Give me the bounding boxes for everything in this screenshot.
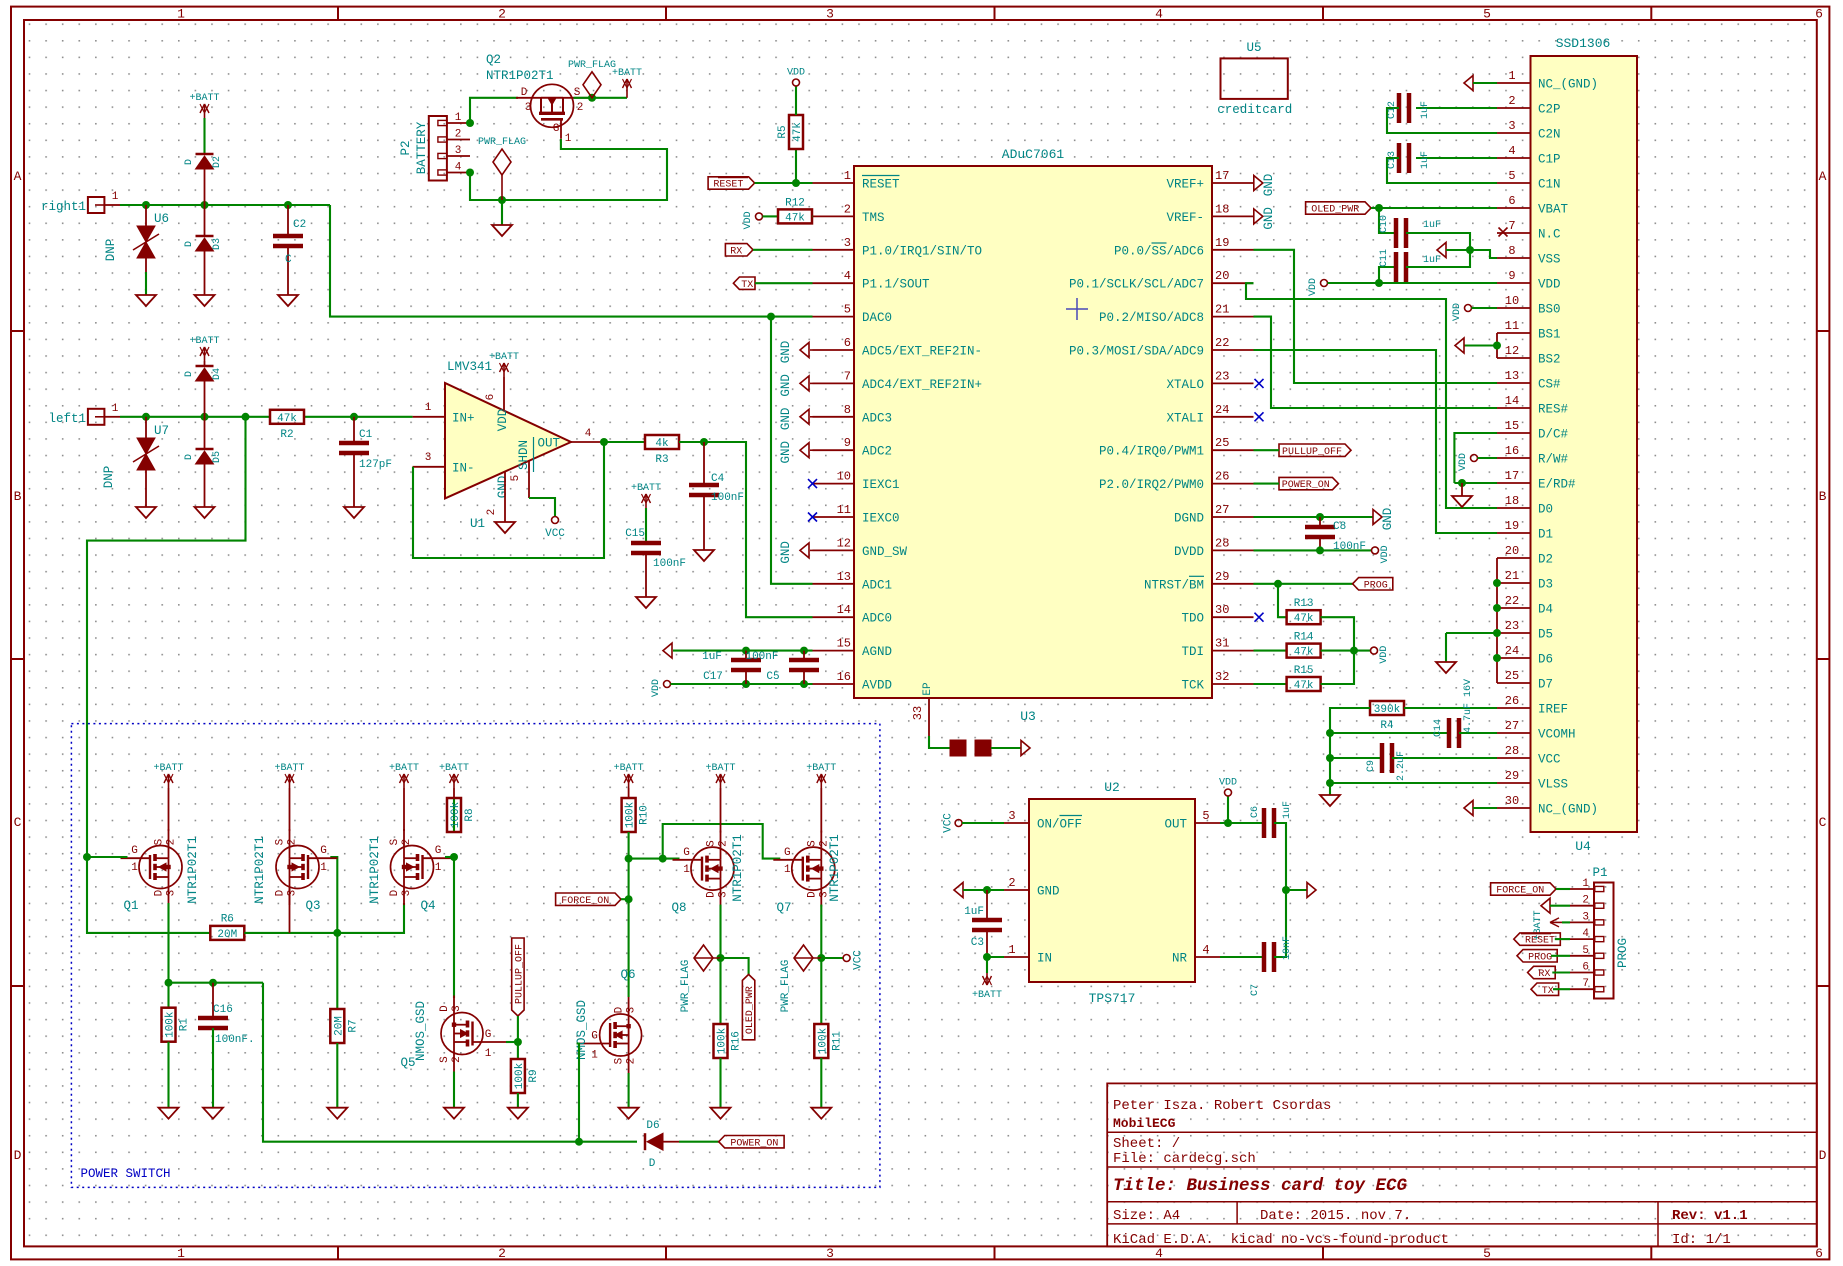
hier label GND at U3 pin 9 xyxy=(810,449,813,451)
svg-text:2: 2 xyxy=(451,1056,463,1063)
transistor Q5 NMOS_GSD xyxy=(441,1013,483,1055)
capacitor C11 xyxy=(1379,267,1397,283)
svg-text:LMV341: LMV341 xyxy=(447,360,492,374)
svg-text:VCC: VCC xyxy=(545,528,565,540)
svg-text:R12: R12 xyxy=(785,197,805,209)
svg-text:21: 21 xyxy=(1215,303,1229,317)
wire Q8 drain to OLED_PWR xyxy=(721,958,749,974)
svg-text:29: 29 xyxy=(1505,769,1519,783)
hier label GND at AGND xyxy=(663,643,672,658)
svg-text:1: 1 xyxy=(1508,69,1515,83)
transistor Q6 NMOS_GSD xyxy=(600,1014,642,1056)
connector J right1 xyxy=(88,197,105,213)
svg-text:2: 2 xyxy=(498,7,506,22)
svg-text:26: 26 xyxy=(1505,694,1519,708)
svg-text:3: 3 xyxy=(287,890,299,897)
ic U3 pin 8 ADC3 xyxy=(813,416,855,418)
svg-text:26: 26 xyxy=(1215,470,1229,484)
wire GND to pin2 xyxy=(963,889,1004,891)
svg-text:7: 7 xyxy=(1582,978,1589,990)
diode D2 xyxy=(196,153,214,156)
capacitor C8 xyxy=(1319,517,1321,525)
svg-text:NTR1P02T1: NTR1P02T1 xyxy=(731,834,745,902)
ic U4 pin 21 D3 xyxy=(1497,582,1531,584)
hier label GND at VSS xyxy=(1437,243,1446,258)
resistor R6 xyxy=(210,926,244,940)
svg-text:20M: 20M xyxy=(333,1016,345,1036)
svg-text:14: 14 xyxy=(837,603,851,617)
wire DGND net xyxy=(1254,516,1374,518)
node left1-D5 xyxy=(201,413,209,421)
svg-text:NTRST/BM: NTRST/BM xyxy=(1144,578,1204,592)
node rail-R14 xyxy=(1350,647,1358,655)
wire Q7 drain down xyxy=(820,905,822,958)
node R6 R7 Q3 gate xyxy=(333,929,341,937)
power flag PWR_FLAG near battery xyxy=(493,149,511,175)
svg-text:VCC: VCC xyxy=(853,950,865,970)
wire Q4 gate to R8 xyxy=(445,856,454,858)
wire P0.0 to CS# xyxy=(1254,250,1498,383)
op-amp U1 pin3 stub xyxy=(413,466,445,468)
svg-text:PULLUP_OFF: PULLUP_OFF xyxy=(1282,447,1342,458)
ic U4 pin 26 IREF xyxy=(1497,707,1531,709)
ground below C15 xyxy=(636,597,656,608)
global label PULLUP_OFF at U3 xyxy=(1279,444,1351,456)
svg-text:47k: 47k xyxy=(1294,680,1314,692)
wire pads to gnd arrow xyxy=(991,747,1021,749)
svg-text:C2: C2 xyxy=(293,219,306,231)
power VDD at DVDD xyxy=(1372,547,1379,554)
svg-text:FORCE_ON: FORCE_ON xyxy=(1496,886,1544,897)
svg-text:D5: D5 xyxy=(212,451,223,463)
svg-text:NTR1P02T1: NTR1P02T1 xyxy=(253,836,267,904)
wire R14 to VDD xyxy=(1321,650,1371,652)
svg-text:+BATT: +BATT xyxy=(189,336,219,347)
svg-text:D3: D3 xyxy=(1538,578,1553,592)
svg-text:5: 5 xyxy=(1483,1246,1491,1261)
svg-text:D0: D0 xyxy=(1538,503,1553,517)
svg-text:POWER SWITCH: POWER SWITCH xyxy=(81,1167,171,1181)
connector P1 pin 7 xyxy=(1570,988,1594,990)
svg-text:D: D xyxy=(649,1158,656,1170)
resistor R3 xyxy=(645,435,679,449)
svg-text:D: D xyxy=(154,889,166,896)
svg-text:TX: TX xyxy=(1542,986,1554,997)
ground below C16 xyxy=(203,1108,223,1119)
svg-text:GND: GND xyxy=(779,341,793,364)
svg-text:CS#: CS# xyxy=(1538,378,1561,392)
ic U4 pin 12 BS2 xyxy=(1497,357,1531,359)
svg-text:22: 22 xyxy=(1505,594,1519,608)
svg-text:1: 1 xyxy=(591,1050,598,1062)
svg-text:S: S xyxy=(439,1056,451,1063)
ic U4 pin 27 VCOMH xyxy=(1497,732,1531,734)
svg-text:Q2: Q2 xyxy=(486,53,501,67)
svg-text:2: 2 xyxy=(1508,94,1515,108)
svg-text:BS2: BS2 xyxy=(1538,353,1561,367)
hier label GND at EP xyxy=(1021,741,1030,756)
svg-text:IEXC0: IEXC0 xyxy=(862,512,900,526)
svg-text:G: G xyxy=(553,123,560,135)
wire op-amp feedback xyxy=(413,442,604,558)
svg-text:GND: GND xyxy=(779,541,793,564)
resistor R8 xyxy=(453,798,455,831)
transistor Q1 NTR1P02T1 xyxy=(139,846,182,889)
ic U3 pin 16 AVDD xyxy=(813,683,855,685)
ic U2 pin2 GND xyxy=(1004,889,1029,891)
power +BATT at P1 pin3 xyxy=(1562,921,1570,923)
svg-text:D: D xyxy=(184,454,195,460)
capacitor C6 xyxy=(1262,808,1267,838)
svg-text:47k: 47k xyxy=(1294,647,1314,659)
svg-text:C2N: C2N xyxy=(1538,128,1561,142)
svg-text:PWR_FLAG: PWR_FLAG xyxy=(680,960,692,1013)
power flag PWR_FLAG at Q2 xyxy=(583,72,601,98)
svg-text:R5: R5 xyxy=(777,125,789,138)
wire AVDD net xyxy=(671,683,813,685)
ic U4 pin 4 C1P xyxy=(1497,157,1531,159)
ic U3 pin 31 TDI xyxy=(1212,650,1254,652)
ic U4 pin 17 E/RD# xyxy=(1497,482,1531,484)
svg-text:2: 2 xyxy=(844,202,851,216)
wire VLSS xyxy=(1330,782,1497,784)
ic U4 pin 29 VLSS xyxy=(1497,782,1531,784)
node OLED_PWR xyxy=(1375,204,1383,212)
power +BATT above D4 xyxy=(204,361,206,366)
capacitor C9 xyxy=(1330,757,1380,759)
ground below R11 xyxy=(811,1108,831,1119)
svg-text:1: 1 xyxy=(784,864,791,876)
capacitor C14 xyxy=(1330,732,1447,734)
svg-text:28: 28 xyxy=(1215,536,1229,550)
tvs U6 DNP xyxy=(145,205,147,226)
svg-text:KiCad E.D.A. kicad no-vcs-fou: KiCad E.D.A. kicad no-vcs-found-product xyxy=(1113,1232,1449,1248)
svg-text:D: D xyxy=(14,1148,22,1163)
wire P0.1 to D0 xyxy=(1246,283,1497,508)
wire Q8 drain down xyxy=(719,905,721,958)
svg-text:Q6: Q6 xyxy=(620,968,635,982)
svg-text:C: C xyxy=(14,815,22,830)
svg-text:S: S xyxy=(154,838,166,845)
svg-text:POWER_ON: POWER_ON xyxy=(1282,480,1330,491)
power VDD above OUT xyxy=(1227,796,1229,823)
svg-text:Q4: Q4 xyxy=(420,899,435,913)
svg-text:3: 3 xyxy=(455,145,462,157)
resistor R15 xyxy=(1287,677,1321,691)
node right1-U6 xyxy=(142,201,150,209)
svg-text:10: 10 xyxy=(837,470,851,484)
overline RESET pin1 xyxy=(862,175,900,177)
svg-text:4: 4 xyxy=(455,162,462,174)
svg-text:3: 3 xyxy=(826,1246,834,1261)
ic U3 pin 22 P0.3/MOSI/SDA/ADC9 xyxy=(1212,349,1254,351)
svg-text:GND: GND xyxy=(1262,174,1276,197)
svg-text:1: 1 xyxy=(455,112,462,124)
wire R8 to Q5 drain xyxy=(453,857,455,998)
node Q7 drain xyxy=(817,954,825,962)
connector P1 pin 1 xyxy=(1570,888,1594,890)
global label FORCE_ON at switch xyxy=(556,893,621,905)
resistor R9 xyxy=(517,1042,519,1059)
svg-text:C6: C6 xyxy=(1250,806,1261,818)
node R10 bottom xyxy=(625,855,633,863)
ic U4 pin 28 VCC xyxy=(1497,757,1531,759)
ic U3 pin 19 P0.0/SS/ADC6 xyxy=(1212,249,1254,251)
diode D5 xyxy=(196,448,214,451)
svg-text:VREF+: VREF+ xyxy=(1166,178,1204,192)
ic U3 pin 20 P0.1/SCLK/SCL/ADC7 xyxy=(1212,282,1254,284)
node Q4 gate R8 xyxy=(450,853,458,861)
ic U4 pin 20 D2 xyxy=(1497,557,1531,559)
title block xyxy=(1107,1083,1817,1246)
ic U2 TPS717 body xyxy=(1029,799,1195,982)
ground below D3 xyxy=(195,295,215,306)
svg-text:19: 19 xyxy=(1505,519,1519,533)
ic U4 pin 11 BS1 xyxy=(1497,332,1531,334)
ground below Q6 xyxy=(619,1108,639,1119)
svg-text:G: G xyxy=(131,845,138,857)
svg-text:2: 2 xyxy=(498,1246,506,1261)
svg-text:2.2uF: 2.2uF xyxy=(1396,751,1407,781)
ic U4 pin 14 RES# xyxy=(1497,407,1531,409)
ground at D/C# xyxy=(1461,483,1463,496)
resistor R11 xyxy=(820,958,822,1024)
svg-text:100k: 100k xyxy=(450,801,462,828)
svg-text:+BATT: +BATT xyxy=(972,990,1002,1001)
wire PULLUP_OFF to node xyxy=(517,1016,519,1042)
wire P0.3 to D1 xyxy=(1254,350,1498,533)
svg-text:TDI: TDI xyxy=(1181,645,1204,659)
svg-text:C15: C15 xyxy=(625,528,645,540)
power VDD at R12 xyxy=(756,213,763,220)
ic U3 pin 7 ADC4/EXT_REF2IN+ xyxy=(813,382,855,384)
svg-text:RESET: RESET xyxy=(1525,936,1555,947)
svg-text:C: C xyxy=(285,254,292,266)
power +BATT above Q7 xyxy=(820,788,822,833)
svg-text:18: 18 xyxy=(1505,494,1519,508)
svg-text:OUT: OUT xyxy=(537,437,560,451)
node rail-VLSS xyxy=(1326,779,1334,787)
ic U4 pin 18 D0 xyxy=(1497,507,1531,509)
svg-text:+BATT: +BATT xyxy=(153,763,183,774)
wire VCC to ON/OFF xyxy=(962,822,1004,824)
svg-text:VCOMH: VCOMH xyxy=(1538,728,1576,742)
svg-text:VDD: VDD xyxy=(1452,303,1463,321)
hier label GND right of C6 xyxy=(1307,883,1316,898)
svg-text:8: 8 xyxy=(1508,244,1515,258)
svg-text:1: 1 xyxy=(320,862,327,874)
node R3-C4 xyxy=(700,438,708,446)
svg-text:D4: D4 xyxy=(1538,603,1553,617)
svg-text:1: 1 xyxy=(485,1048,492,1060)
svg-text:P2.0/IRQ2/PWM0: P2.0/IRQ2/PWM0 xyxy=(1099,478,1204,492)
svg-text:G: G xyxy=(683,847,690,859)
hier label GND at U4 pin30 xyxy=(1464,801,1473,816)
svg-text:20: 20 xyxy=(1215,269,1229,283)
wire RX to pin3 xyxy=(753,249,813,251)
hier label GND at VREF- xyxy=(1254,209,1263,224)
global label OLED_PWR at U4 xyxy=(1306,202,1371,214)
global label TX at P1 xyxy=(1531,983,1559,995)
ic U3 pin 15 AGND xyxy=(813,650,855,652)
svg-text:D: D xyxy=(1819,1148,1827,1163)
svg-text:C11: C11 xyxy=(1379,249,1390,267)
svg-text:15: 15 xyxy=(837,637,851,651)
node BS1-BS2 xyxy=(1493,342,1501,350)
svg-text:1: 1 xyxy=(435,862,442,874)
svg-text:13: 13 xyxy=(1505,369,1519,383)
svg-text:PWR_FLAG: PWR_FLAG xyxy=(780,960,792,1013)
svg-text:6: 6 xyxy=(1815,1246,1823,1261)
svg-text:G: G xyxy=(320,845,327,857)
node DGND-C8 xyxy=(1316,513,1324,521)
ic U3 pin 32 TCK xyxy=(1212,683,1254,685)
node Q2 source xyxy=(588,94,596,102)
svg-text:U5: U5 xyxy=(1246,41,1261,55)
capacitor C10 xyxy=(1379,208,1397,233)
ic U4 pin 23 D5 xyxy=(1497,632,1531,634)
ic U3 pin 3 P1.0/IRQ1/SIN/TO xyxy=(813,249,855,251)
node OUT xyxy=(1224,819,1232,827)
op-amp U1 pin4 stub xyxy=(571,441,604,443)
svg-text:IN: IN xyxy=(1037,952,1052,966)
svg-text:VDD: VDD xyxy=(651,679,662,697)
svg-text:100nF: 100nF xyxy=(745,651,778,663)
svg-text:6: 6 xyxy=(844,336,851,350)
wire pin25 to PULLUP_OFF xyxy=(1254,449,1280,451)
wire OUT net xyxy=(1220,822,1262,824)
svg-text:D7: D7 xyxy=(1538,678,1553,692)
svg-text:D2: D2 xyxy=(212,156,223,168)
power +BATT at op-amp xyxy=(503,363,505,377)
net-tie pad A xyxy=(950,740,966,756)
svg-text:NC_(GND): NC_(GND) xyxy=(1538,78,1598,92)
svg-text:8: 8 xyxy=(844,403,851,417)
svg-text:BS0: BS0 xyxy=(1538,303,1561,317)
ic U3 pin 24 XTALI xyxy=(1212,416,1254,418)
svg-text:TDO: TDO xyxy=(1181,612,1204,626)
svg-text:VREF-: VREF- xyxy=(1166,211,1204,225)
node Q1 gate xyxy=(83,853,91,861)
wire Q1 drain down xyxy=(167,903,169,983)
connector P1 pin 3 xyxy=(1570,921,1594,923)
capacitor C4 xyxy=(703,442,705,483)
ic U4 pin 10 BS0 xyxy=(1497,307,1531,309)
svg-text:+BATT: +BATT xyxy=(806,763,836,774)
node NTRST-R13 xyxy=(1274,580,1282,588)
power +BATT above R8 xyxy=(453,788,455,798)
svg-text:11: 11 xyxy=(1505,319,1519,333)
graphic box POWER SWITCH xyxy=(71,724,880,1188)
ic U4 pin 13 CS# xyxy=(1497,382,1531,384)
svg-text:4: 4 xyxy=(1155,7,1163,22)
svg-text:+BATT: +BATT xyxy=(614,763,644,774)
svg-text:30: 30 xyxy=(1215,603,1229,617)
svg-text:Size: A4: Size: A4 xyxy=(1113,1208,1180,1224)
resistor R1 xyxy=(167,983,169,1008)
svg-text:9: 9 xyxy=(844,436,851,450)
ground below R7 xyxy=(327,1108,347,1119)
node left1-drop xyxy=(242,413,250,421)
svg-text:2: 2 xyxy=(287,839,299,846)
svg-text:R8: R8 xyxy=(464,808,476,821)
svg-text:47k: 47k xyxy=(1294,613,1314,625)
diode D4 xyxy=(196,365,214,368)
svg-text:+BATT: +BATT xyxy=(489,352,519,363)
svg-text:390k: 390k xyxy=(1374,704,1401,716)
svg-text:R10: R10 xyxy=(639,805,651,825)
svg-text:creditcard: creditcard xyxy=(1217,103,1292,117)
svg-text:DVDD: DVDD xyxy=(1174,545,1204,559)
ground below op-amp xyxy=(495,522,515,533)
svg-text:NMOS_GSD: NMOS_GSD xyxy=(414,1001,428,1061)
svg-text:A: A xyxy=(1819,169,1827,184)
node D bus pin 23 xyxy=(1493,629,1501,637)
svg-text:GND: GND xyxy=(779,441,793,464)
ground below C4 xyxy=(694,550,714,561)
svg-text:1uF: 1uF xyxy=(1423,220,1441,231)
no-connect U3 pin11 xyxy=(808,513,817,522)
ic U4 pin 19 D1 xyxy=(1497,532,1531,534)
node VDD-C11 xyxy=(1375,279,1383,287)
svg-text:3: 3 xyxy=(1508,119,1515,133)
svg-text:2: 2 xyxy=(718,840,730,847)
resistor R14 xyxy=(1287,644,1321,658)
svg-text:16: 16 xyxy=(837,670,851,684)
svg-text:U7: U7 xyxy=(154,424,169,438)
svg-text:OLED_PWR: OLED_PWR xyxy=(745,986,756,1034)
svg-text:DNP: DNP xyxy=(102,466,116,489)
svg-text:TX: TX xyxy=(741,280,753,291)
svg-text:U3: U3 xyxy=(1020,709,1036,724)
node DVDD-C8 xyxy=(1316,546,1324,554)
svg-text:+BATT: +BATT xyxy=(189,93,219,104)
ground below C1 xyxy=(344,507,364,518)
wire TDI to R14 xyxy=(1254,650,1287,652)
svg-text:Q8: Q8 xyxy=(671,901,686,915)
hier label GND at U4 pin1 xyxy=(1464,76,1473,91)
wire R4 to IREF xyxy=(1404,707,1497,709)
wire P0.2 to RES# xyxy=(1254,317,1498,408)
hier label GND at U3 pin 6 xyxy=(810,349,813,351)
svg-text:P0.1/SCLK/SCL/ADC7: P0.1/SCLK/SCL/ADC7 xyxy=(1069,278,1204,292)
svg-text:EP: EP xyxy=(922,682,934,696)
ground below R16 xyxy=(711,1108,731,1119)
ic U4 pin 1 NC_(GND) xyxy=(1497,82,1531,84)
capacitor C1 xyxy=(353,417,355,441)
wire Q6 source to gnd xyxy=(628,1073,630,1108)
svg-text:OUT: OUT xyxy=(1164,818,1187,832)
ic U4 pin 5 C1N xyxy=(1497,182,1531,184)
svg-text:15: 15 xyxy=(1505,419,1519,433)
global label POWER_ON at D6 xyxy=(719,1136,784,1148)
power VDD at U4 pin9 xyxy=(1321,280,1328,287)
svg-text:NR: NR xyxy=(1172,952,1188,966)
node Q5 gate xyxy=(514,1038,522,1046)
svg-text:3: 3 xyxy=(166,890,178,897)
op-amp U1 pin1 stub xyxy=(413,416,445,418)
wire R10 node down to Q6 drain xyxy=(628,859,630,997)
svg-text:P2: P2 xyxy=(399,140,413,155)
svg-text:B: B xyxy=(1819,489,1827,504)
svg-text:18: 18 xyxy=(1215,202,1229,216)
wire TCK to R15 xyxy=(1254,683,1287,685)
svg-text:28: 28 xyxy=(1505,744,1519,758)
svg-text:R9: R9 xyxy=(528,1069,540,1082)
connector P1 pin 4 xyxy=(1570,938,1594,940)
svg-text:NTR1P02T1: NTR1P02T1 xyxy=(486,69,554,83)
global label RX at P1 xyxy=(1528,966,1556,978)
